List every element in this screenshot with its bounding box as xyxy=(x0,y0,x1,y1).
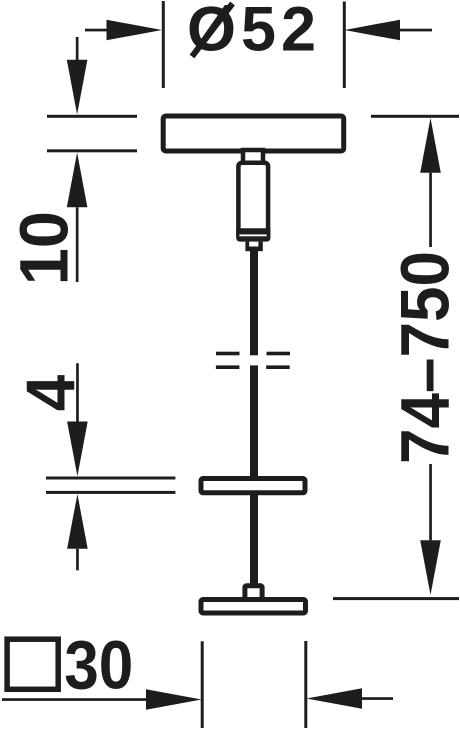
arrowhead left Ø52 (points right) xyxy=(107,20,163,41)
square symbol xyxy=(7,639,58,689)
arrow 10 down xyxy=(76,37,79,62)
cord grip body xyxy=(238,163,268,240)
extension line 10 top xyxy=(47,115,137,118)
cord grip nut hole xyxy=(249,242,258,247)
svg-text:30: 30 xyxy=(64,627,133,704)
diameter slash extension xyxy=(192,4,233,57)
extension line 4 top xyxy=(46,477,175,480)
svg-text:74–750: 74–750 xyxy=(387,251,460,464)
extension line 10 bottom xyxy=(47,149,137,152)
extension line 74-750 bottom xyxy=(333,597,459,600)
extension line right Ø52 xyxy=(343,2,346,89)
cord grip cap slot xyxy=(239,234,266,236)
extension line left Ø52 xyxy=(162,1,165,88)
dimension line right of 30 xyxy=(362,697,393,700)
canopy plate xyxy=(163,116,344,151)
arrow 74-750 down xyxy=(429,464,432,540)
svg-text:10: 10 xyxy=(6,211,83,285)
cable upper segment xyxy=(250,251,258,355)
arrowhead right Ø52 (points left) xyxy=(345,20,401,41)
cord grip collar xyxy=(243,150,263,163)
cord grip bottom cap xyxy=(236,228,270,241)
cable lower segment xyxy=(250,365,258,585)
extension line 74-750 top xyxy=(371,115,459,118)
middle disc xyxy=(201,479,305,493)
extension line left 30 xyxy=(201,641,204,728)
arrowhead right 30 (points left) xyxy=(307,688,363,709)
arrow 4 up xyxy=(67,494,88,549)
pendant connector block xyxy=(245,586,262,602)
break mark upper left dash xyxy=(216,352,240,356)
dimension line left of 30 xyxy=(2,698,150,701)
dimension line left of Ø52 xyxy=(85,29,110,32)
dimension line right of Ø52 xyxy=(400,29,432,32)
arrow 74-750 up xyxy=(420,118,441,173)
pendant bottom bar xyxy=(201,600,306,614)
break mark lower left dash xyxy=(216,365,240,369)
cord grip nut xyxy=(245,242,262,252)
extension line 4 bottom xyxy=(46,491,175,494)
extension line right 30 xyxy=(304,641,307,728)
arrow 4 down xyxy=(76,363,79,422)
break mark lower right dash xyxy=(266,365,290,369)
arrowhead left 30 (points right) xyxy=(146,689,202,710)
arrow 10 up xyxy=(67,153,88,208)
break mark upper right dash xyxy=(267,352,291,356)
